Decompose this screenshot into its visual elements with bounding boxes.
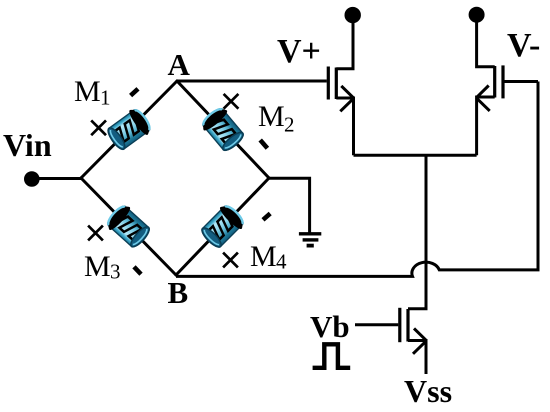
pulse waveform symbol [313,344,351,368]
svg-text:Vin: Vin [3,127,52,163]
transistor M6 (right, V-) gate bar [501,65,504,98]
wire bridge edge A-East (NE) [177,81,269,178]
node Vin terminal dot [24,171,40,187]
wire M6 drain lead [477,15,495,67]
arrow on M7 source [413,328,427,353]
wire M7 gate lead from Vb [355,323,398,326]
polarity dash of M3 [134,267,141,274]
memristor M1 body [104,105,154,153]
wire M6 source lead [477,97,495,155]
wire node B to right edge with hop over tail wire [176,82,538,277]
svg-text:V-: V- [507,27,540,64]
wire tail vertical from bus to M7 drain [408,155,426,308]
polarity dash of M1 [131,89,138,96]
polarity dash of M4 [263,214,270,220]
memristor M4 body [198,202,248,252]
wire Vin dot to bridge west vertex [32,177,81,180]
wire M7 source lead to Vss [408,341,426,375]
svg-text:3: 3 [110,260,121,284]
svg-text:Vss: Vss [404,373,452,409]
svg-text:A: A [168,47,191,82]
polarity cross of M2 [224,94,239,109]
node VDD dot left [345,7,361,23]
arrow on M5 source [340,86,354,111]
arrow on M6 source [476,86,490,111]
node VDD dot right [469,7,485,23]
polarity cross of M1 [91,120,106,135]
wire M5 drain lead [336,15,353,69]
svg-text:4: 4 [276,250,287,274]
ground symbol [299,234,321,246]
svg-text:B: B [168,275,189,310]
transistor M7 channel bar [406,309,409,342]
wire bridge edge West-B (SW) [81,178,176,275]
svg-text:M: M [74,75,101,108]
transistor M5 (left, V+) gate bar [327,67,330,100]
transistor M5 channel bar [335,68,338,100]
svg-text:Vb: Vb [310,309,350,344]
wire node A to M5 gate [177,80,327,83]
polarity dash of M2 [260,140,267,148]
wire bridge edge B-East (SE) [176,178,269,275]
svg-text:1: 1 [100,86,111,110]
transistor M7 (tail) gate bar [398,308,401,342]
svg-text:M: M [258,100,285,133]
svg-text:V+: V+ [277,33,321,70]
wire east vertex to ground [269,178,310,233]
polarity cross of M3 [88,226,103,241]
transistor M6 channel bar [493,66,496,98]
svg-text:2: 2 [284,113,295,137]
wire M5 source lead [336,98,353,155]
memristor M2 body [199,104,248,154]
wire bridge edge West-A (NW) [81,81,177,178]
svg-text:M: M [250,240,277,273]
wire common source bus [354,154,477,157]
polarity cross of M4 [223,253,238,268]
svg-text:M: M [84,250,111,283]
wire M6 gate lead [503,80,538,83]
memristor M3 body [103,202,153,251]
